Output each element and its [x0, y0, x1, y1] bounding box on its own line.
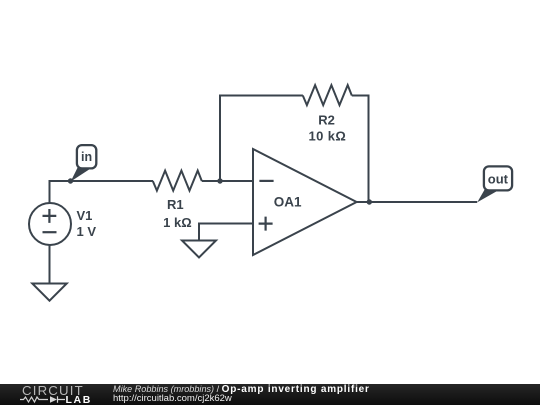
flag out box	[484, 166, 512, 190]
V1 minus sign	[43, 231, 57, 233]
svg-text:OA1: OA1	[274, 195, 302, 210]
footer bar	[0, 384, 540, 405]
wire: R1 to op-amp minus input	[202, 180, 253, 182]
wire: V1 bottom to ground	[49, 245, 51, 283]
ground (V1)	[32, 284, 66, 301]
flag in box	[77, 145, 96, 168]
footer caption line 2	[113, 394, 232, 404]
svg-text:R1: R1	[167, 197, 184, 212]
svg-text:V1: V1	[77, 208, 93, 223]
V1 plus sign	[43, 209, 57, 223]
node dot output	[367, 199, 372, 204]
CircuitLab logo	[20, 385, 100, 405]
footer caption line 1	[113, 384, 370, 395]
flag in tail	[71, 168, 90, 182]
op-amp plus input symbol	[259, 217, 273, 231]
voltage source V1	[29, 203, 71, 245]
wire: feedback left vertical	[220, 96, 303, 182]
resistor R2	[303, 85, 352, 105]
node dot in	[68, 178, 73, 183]
svg-text:R2: R2	[318, 112, 335, 127]
op-amp OA1 triangle	[253, 149, 357, 255]
wire: feedback right vertical	[352, 96, 369, 203]
wire: op-amp plus input to ground	[199, 224, 253, 241]
resistor R1	[153, 171, 202, 191]
svg-text:10 kΩ: 10 kΩ	[309, 129, 347, 144]
node dot feedback/minus	[217, 178, 222, 183]
flag out tail	[477, 190, 496, 203]
svg-text:out: out	[488, 172, 509, 187]
ground (op-amp plus input)	[182, 241, 216, 258]
wire: op-amp output to out flag	[357, 201, 478, 203]
svg-text:LAB: LAB	[66, 394, 92, 405]
svg-text:in: in	[81, 150, 92, 164]
svg-text:1 kΩ: 1 kΩ	[163, 215, 192, 230]
svg-text:1 V: 1 V	[77, 224, 97, 239]
logo resistor icon	[20, 397, 48, 402]
op-amp minus input symbol	[259, 180, 273, 182]
wire: input corner from V1 top to R1 left	[50, 181, 154, 203]
logo diode icon	[50, 396, 57, 402]
